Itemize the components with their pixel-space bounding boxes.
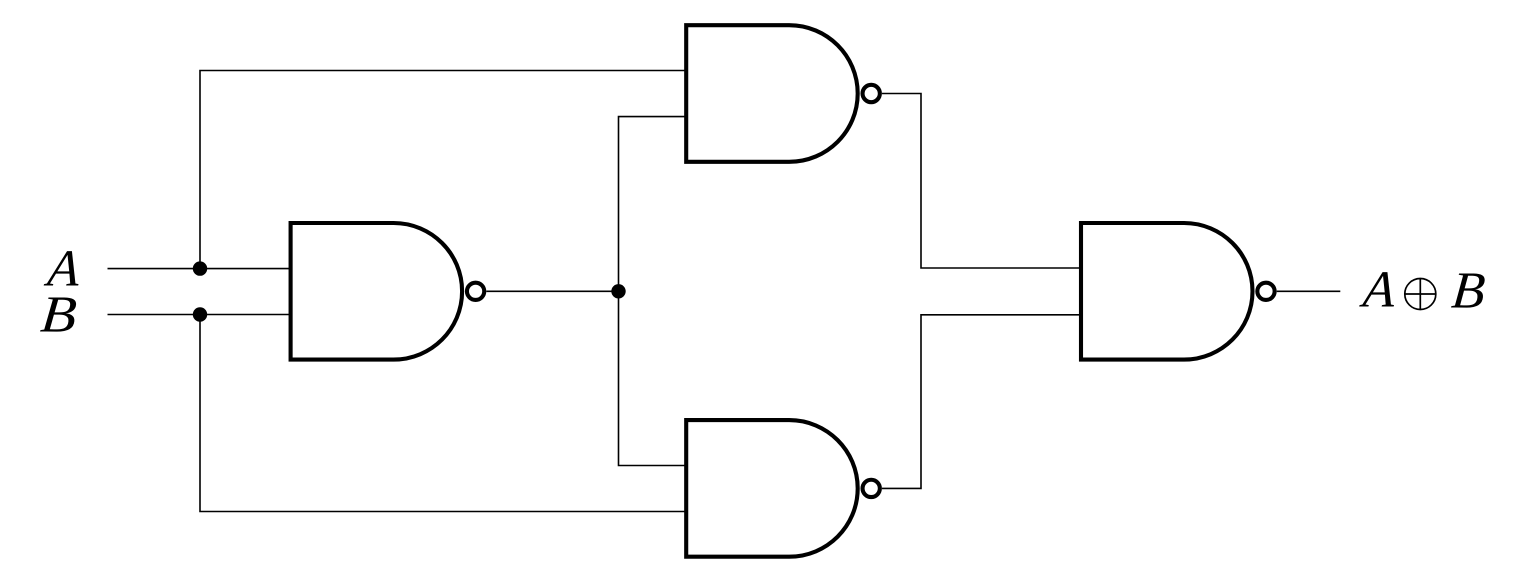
wire: A branch up and across to top NAND top input bbox=[200, 71, 688, 269]
svg-text:B: B bbox=[38, 287, 78, 344]
wire: U3 output up to final NAND bottom input bbox=[882, 315, 1083, 489]
node A junction dot bbox=[193, 261, 207, 275]
nand gate U2 (top) bbox=[686, 25, 880, 162]
input label A bbox=[42, 241, 82, 298]
node M junction dot bbox=[611, 284, 625, 298]
wire: A input lead bbox=[108, 268, 293, 270]
node B junction dot bbox=[193, 307, 207, 321]
wire: U1 output to middle node bbox=[486, 290, 618, 292]
wire: B branch down and across to bottom NAND bottom input bbox=[200, 315, 688, 512]
svg-text:B: B bbox=[1449, 262, 1487, 319]
wire: U2 output down to final NAND top input bbox=[882, 94, 1083, 269]
wire: middle node down to bottom NAND top input bbox=[619, 291, 689, 465]
output label A bbox=[1358, 262, 1398, 319]
output label B bbox=[1449, 262, 1487, 319]
nand gate U4 (output) bbox=[1081, 223, 1275, 360]
input label B bbox=[38, 287, 78, 344]
wire: B input lead bbox=[108, 314, 293, 316]
svg-text:A: A bbox=[1358, 262, 1398, 319]
wire: middle node up to top NAND bottom input bbox=[619, 117, 689, 292]
wire: U4 output lead bbox=[1277, 290, 1341, 292]
nand gate U3 (bottom) bbox=[686, 420, 880, 557]
xor symbol circle-plus bbox=[1405, 279, 1436, 310]
nand gate U1 (inputs A,B) bbox=[291, 223, 485, 360]
